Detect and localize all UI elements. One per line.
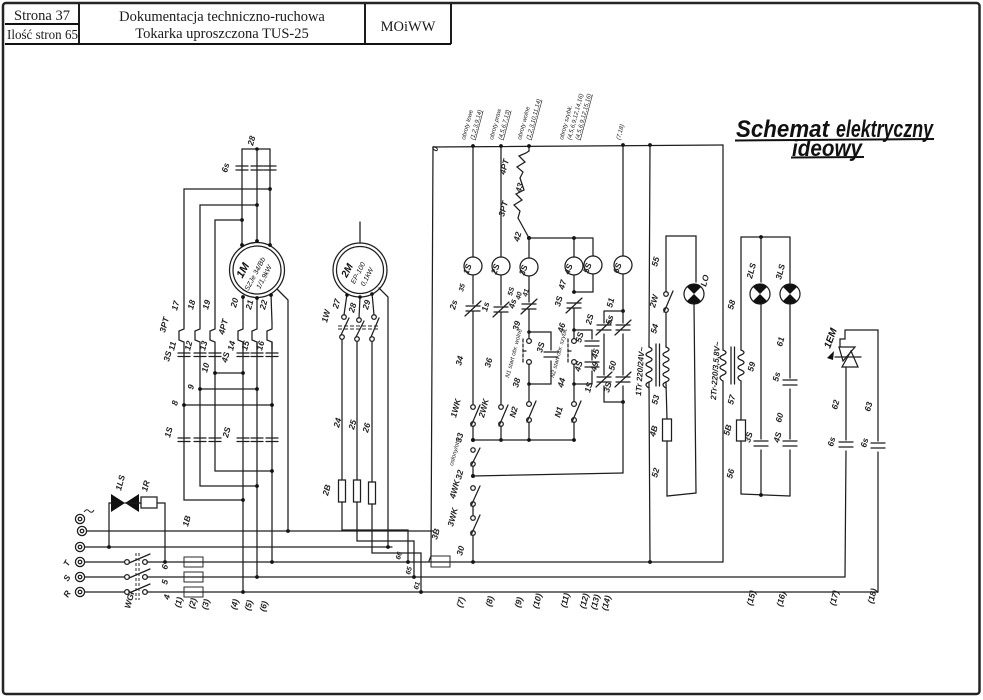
- wire 1M frame to neutral: [277, 289, 288, 531]
- svg-text:3S: 3S: [517, 263, 530, 277]
- limit switch 2WK: [476, 397, 508, 442]
- wire 17 step: [169, 189, 270, 323]
- svg-text:(4): (4): [228, 598, 240, 611]
- svg-text:Dokumentacja techniczno-ruchow: Dokumentacja techniczno-ruchowa: [119, 9, 325, 25]
- wire 20 motor bottom lead: [228, 295, 245, 323]
- interlock bottom rail: [604, 400, 625, 473]
- svg-text:1R: 1R: [139, 479, 152, 493]
- fuse 1B pole 1: [184, 557, 203, 567]
- svg-text:32: 32: [453, 469, 465, 481]
- terminal 0: [77, 526, 86, 535]
- svg-text:2WK: 2WK: [476, 397, 491, 420]
- svg-text:36: 36: [482, 357, 494, 369]
- svg-text:60: 60: [773, 412, 785, 424]
- svg-text:34: 34: [453, 355, 465, 367]
- svg-text:1B: 1B: [180, 514, 192, 527]
- links 6s: [219, 162, 276, 174]
- wire numbers 66 65 61: [395, 551, 422, 590]
- wire column 15 mid: [256, 342, 258, 486]
- svg-text:22: 22: [257, 299, 269, 312]
- wire column 16 mid: [271, 342, 273, 471]
- svg-text:2LS: 2LS: [744, 262, 758, 281]
- svg-text:62: 62: [829, 399, 841, 411]
- button N2 stop: [507, 384, 536, 442]
- svg-text:3LS: 3LS: [773, 263, 787, 281]
- svg-text:4: 4: [161, 593, 172, 601]
- svg-text:54: 54: [648, 323, 660, 335]
- chain 2S column: NC contact 1s: [479, 275, 509, 404]
- terminal R: [61, 587, 85, 599]
- svg-text:4PT: 4PT: [497, 157, 511, 176]
- svg-text:5S: 5S: [581, 261, 594, 275]
- svg-text:(7,18): (7,18): [616, 124, 626, 141]
- svg-text:2B: 2B: [320, 483, 333, 497]
- svg-text:3S: 3S: [552, 295, 564, 308]
- wire column 13 lower: [215, 350, 272, 471]
- terminal N: [75, 542, 84, 551]
- svg-text:6s: 6s: [858, 437, 870, 449]
- svg-text:17: 17: [169, 299, 181, 312]
- svg-text:61: 61: [774, 336, 786, 348]
- wire 61 contact 5s 60 contact 4S: [770, 305, 797, 496]
- svg-text:28: 28: [245, 135, 257, 148]
- svg-text:1W: 1W: [319, 308, 332, 324]
- fuse 4B: [647, 419, 671, 441]
- net label obroty wolne: [517, 98, 543, 140]
- wire 29 lead: [360, 292, 374, 315]
- motor 2M: [333, 243, 387, 297]
- svg-text:2S: 2S: [220, 426, 233, 440]
- svg-text:4S: 4S: [771, 431, 784, 445]
- lamp 3LS: [773, 263, 800, 304]
- lamp loop LO top: [666, 236, 696, 282]
- coil 3S: [517, 238, 538, 277]
- wire phase y592: [85, 590, 878, 594]
- wire 22 motor bottom lead: [257, 293, 273, 323]
- svg-text:4WK: 4WK: [447, 478, 462, 501]
- wire 53 52: [649, 383, 667, 479]
- transformer 2Tr: [709, 341, 744, 401]
- wire 57 56: [724, 381, 741, 480]
- svg-text:35: 35: [458, 283, 467, 292]
- bus left edge: [429, 147, 433, 561]
- svg-text:1WK: 1WK: [448, 397, 463, 419]
- fuse 2B pole2: [354, 480, 361, 502]
- contactor contacts 3S row: [161, 350, 221, 363]
- net label obroty szybk: [559, 93, 593, 140]
- riser wire 16->phase y562: [271, 471, 273, 562]
- svg-text:65: 65: [405, 566, 414, 575]
- wire phase y562: [85, 560, 723, 564]
- transformer 1Tr: [634, 344, 669, 396]
- interlock branch A: [582, 311, 623, 402]
- svg-text:5S: 5S: [507, 286, 516, 296]
- bus right edge / 2Tr primary: [720, 145, 726, 562]
- contactor contacts 4S row: [219, 351, 278, 365]
- net label obroty lewe: [461, 109, 484, 141]
- svg-text:1EM: 1EM: [822, 326, 840, 350]
- link wire 8: [169, 399, 274, 407]
- lamp loop 2 bottom: [741, 441, 790, 497]
- contactor contacts 2S row: [220, 426, 278, 442]
- coil 6S: [611, 145, 632, 275]
- wire numbers 11 12 13 14 15 16: [166, 340, 266, 352]
- fuse 3B: [429, 527, 466, 567]
- svg-text:57: 57: [725, 393, 737, 406]
- svg-text:14: 14: [225, 340, 237, 352]
- rail 33: [473, 439, 574, 441]
- wire neutral N y547: [85, 545, 392, 549]
- riser wire 15->phase y577: [256, 486, 258, 577]
- coil 4S: [561, 257, 583, 277]
- selfhold contacts 5S 4S: [572, 330, 601, 384]
- svg-text:44: 44: [555, 377, 567, 390]
- wire 18 step: [185, 205, 257, 323]
- wire 42 link: [529, 236, 593, 257]
- svg-text:N2 start obr. szybk.: N2 start obr. szybk.: [550, 327, 569, 378]
- wire 2B out 2: [357, 502, 414, 577]
- svg-text:Strona 37: Strona 37: [14, 8, 70, 24]
- fuse 5B: [721, 420, 745, 441]
- lamp loop LO bottom: [667, 304, 696, 496]
- svg-text:1Tr 220/24V~: 1Tr 220/24V~: [634, 346, 646, 396]
- link wire 10: [199, 362, 245, 375]
- svg-text:28: 28: [346, 302, 358, 315]
- limit switch 3WK: [445, 506, 480, 562]
- svg-text:3S: 3S: [161, 350, 173, 363]
- wire 2B out 3: [372, 504, 421, 592]
- svg-text:51: 51: [604, 297, 616, 309]
- svg-text:(16): (16): [774, 590, 788, 607]
- svg-text:2S: 2S: [583, 313, 596, 327]
- svg-text:19: 19: [200, 299, 212, 311]
- limit switch 4WK: [447, 478, 480, 506]
- wire 1M top lead c: [268, 149, 272, 247]
- svg-text:4S: 4S: [219, 351, 232, 365]
- net label obroty praw: [489, 107, 512, 140]
- wire 43: [513, 178, 525, 194]
- svg-text:4PT: 4PT: [216, 317, 230, 336]
- bus 0 top: [429, 143, 723, 153]
- coil 5S: [581, 256, 602, 275]
- wire 62 contact 6s: [825, 367, 853, 577]
- svg-text:18: 18: [185, 299, 197, 311]
- thermal contact 4PT: [497, 146, 529, 178]
- svg-text:42: 42: [511, 231, 523, 244]
- svg-text:52: 52: [649, 467, 661, 479]
- lamp 2LS: [744, 262, 770, 304]
- rail 32: [473, 473, 623, 476]
- svg-text:5S: 5S: [573, 331, 585, 344]
- guard switch oslony: [449, 437, 480, 467]
- thermal contact 3PT: [496, 190, 524, 218]
- wire 26: [360, 342, 372, 482]
- node 32: [453, 466, 475, 481]
- wire column 11 lower: [184, 350, 243, 500]
- svg-text:10: 10: [199, 362, 211, 374]
- svg-text:5s: 5s: [770, 371, 782, 383]
- svg-text:N1: N1: [552, 405, 565, 418]
- riser wire 14->phase y592: [242, 500, 244, 592]
- lamp loop 2 top: [741, 235, 790, 283]
- node 42: [511, 218, 531, 243]
- svg-text:20: 20: [228, 297, 240, 310]
- wire 2M frame to neutral: [379, 288, 388, 547]
- wire 1M top lead a: [240, 149, 244, 247]
- svg-text:(8): (8): [483, 595, 495, 608]
- svg-text:50: 50: [606, 360, 618, 372]
- clutch 1EM: [822, 326, 878, 367]
- svg-text:38: 38: [510, 377, 522, 389]
- svg-text:(2): (2): [186, 597, 198, 610]
- svg-text:8: 8: [169, 399, 180, 406]
- wire column 12 lower: [200, 350, 257, 486]
- svg-text:47: 47: [556, 278, 569, 292]
- terminal S: [61, 572, 85, 583]
- wire 2M top stub: [359, 222, 361, 243]
- main switch WGl: [122, 553, 150, 610]
- svg-text:56: 56: [724, 468, 736, 480]
- svg-text:58: 58: [725, 299, 737, 311]
- chain 3S column: NC contact 4s: [506, 276, 537, 332]
- node 44: [555, 364, 592, 389]
- node 47: [556, 274, 593, 294]
- chain 4S column: NC contact 3S: [552, 295, 582, 335]
- svg-text:15: 15: [239, 340, 251, 352]
- terminal N0: [75, 510, 94, 524]
- coil 2S: [488, 146, 510, 277]
- terminal T: [61, 557, 85, 568]
- motor 1M: [230, 243, 285, 298]
- svg-text:(10): (10): [530, 592, 544, 609]
- svg-text:1LS: 1LS: [113, 474, 127, 492]
- coil 1S: [461, 146, 482, 276]
- transformer 1Tr primary feed: [649, 145, 650, 347]
- svg-text:(3): (3): [199, 598, 211, 611]
- svg-text:2Tr-220/3,5,8V~: 2Tr-220/3,5,8V~: [709, 341, 722, 401]
- svg-text:53: 53: [649, 394, 661, 406]
- wire 19 step: [200, 220, 242, 323]
- wire 21 motor bottom lead: [243, 296, 259, 323]
- fuse 1B pole 3: [184, 587, 203, 597]
- button N2 start obr szybk: [550, 327, 576, 378]
- wire 55: [649, 236, 666, 292]
- wire 2B out 1: [342, 502, 408, 562]
- svg-text:Ilość stron 65: Ilość stron 65: [7, 27, 78, 42]
- svg-text:2s: 2s: [447, 299, 459, 312]
- wire 1Tr primary to phase: [649, 383, 650, 562]
- switch 2W: [647, 291, 673, 347]
- svg-text:6s: 6s: [825, 436, 837, 448]
- node 51: [604, 274, 625, 313]
- node 33: [453, 426, 475, 444]
- limit switch 1WK: [448, 397, 480, 426]
- svg-text:3PT: 3PT: [157, 315, 171, 333]
- signal lamp 1LS: [109, 474, 141, 547]
- switch 1W: [319, 308, 380, 342]
- fuse 2B pole3: [369, 482, 376, 504]
- wire 24: [331, 340, 343, 480]
- wire 58: [725, 237, 741, 350]
- svg-text:(9): (9): [512, 596, 524, 609]
- svg-text:(7): (7): [454, 596, 466, 609]
- wire column 14 mid: [242, 342, 244, 500]
- svg-text:3B: 3B: [429, 527, 441, 540]
- breaker contacts 3PT: [157, 315, 215, 350]
- svg-text:(11): (11): [558, 592, 571, 609]
- svg-text:(6): (6): [257, 600, 269, 613]
- svg-text:27: 27: [330, 297, 343, 311]
- wire 25: [346, 342, 358, 480]
- svg-text:5s: 5s: [603, 314, 615, 326]
- fuse 1B pole 2: [184, 572, 203, 582]
- svg-text:3WK: 3WK: [445, 506, 460, 528]
- wire 59 contact 3S: [742, 304, 768, 496]
- svg-text:S: S: [61, 573, 73, 583]
- svg-text:osłony/otw: osłony/otw: [449, 437, 462, 467]
- button N1 stop: [552, 384, 581, 442]
- svg-text:4B: 4B: [647, 424, 660, 438]
- junction dots bottom links: [241, 469, 274, 502]
- svg-text:29: 29: [360, 299, 372, 312]
- svg-text:R: R: [61, 588, 73, 599]
- fuse 2B pole1: [339, 480, 346, 502]
- resistor 1R: [125, 479, 165, 562]
- node 38: [510, 364, 551, 389]
- wire neutral 0 y531: [87, 529, 433, 533]
- wire 27 lead: [330, 293, 349, 315]
- svg-text:9: 9: [185, 383, 196, 390]
- svg-text:(1): (1): [172, 596, 184, 609]
- wire phase y577: [85, 575, 845, 579]
- selfhold contact 3S: [529, 332, 558, 384]
- svg-text:13: 13: [197, 340, 209, 352]
- svg-text:1s: 1s: [479, 301, 491, 313]
- wire 63 contact 6s: [858, 330, 885, 592]
- svg-text:26: 26: [360, 422, 372, 435]
- title: Schemat elektryczny ideowy: [735, 116, 934, 161]
- wire 1M top lead b: [255, 149, 259, 243]
- svg-text:N2: N2: [507, 405, 520, 418]
- svg-text:(18): (18): [865, 587, 879, 604]
- chain 1S column: NC contact 2s: [447, 275, 481, 404]
- svg-text:6: 6: [159, 563, 170, 570]
- svg-text:59: 59: [745, 361, 757, 373]
- svg-text:0: 0: [429, 145, 440, 153]
- svg-text:16: 16: [254, 340, 266, 352]
- svg-text:45: 45: [589, 348, 601, 361]
- breaker contacts 4PT: [216, 317, 272, 350]
- button N1 start obr wolne: [505, 328, 531, 379]
- svg-text:MOiWW: MOiWW: [381, 19, 436, 35]
- svg-text:Tokarka uproszczona TUS-25: Tokarka uproszczona TUS-25: [135, 26, 308, 42]
- svg-text:1S: 1S: [461, 262, 474, 276]
- svg-text:6S: 6S: [611, 261, 624, 275]
- svg-text:(1,2,3,10,11,14): (1,2,3,10,11,14): [526, 98, 543, 140]
- svg-text:LO: LO: [698, 273, 711, 287]
- star bar 28: [242, 135, 270, 151]
- svg-text:1S: 1S: [162, 426, 174, 439]
- svg-text:55: 55: [649, 256, 661, 268]
- svg-text:N1 start obr. wolne: N1 start obr. wolne: [505, 328, 524, 379]
- svg-text:(5): (5): [242, 599, 254, 612]
- lamp LO: [684, 273, 711, 304]
- svg-text:5: 5: [159, 578, 170, 585]
- header table: [5, 4, 451, 44]
- svg-text:5B: 5B: [721, 423, 733, 436]
- svg-text:3PT: 3PT: [496, 199, 510, 217]
- contactor contacts 1S row: [162, 426, 221, 442]
- svg-text:11: 11: [166, 340, 178, 351]
- svg-text:30: 30: [454, 545, 466, 557]
- svg-text:1S: 1S: [582, 381, 594, 394]
- svg-text:63: 63: [862, 401, 874, 413]
- svg-text:6s: 6s: [219, 162, 231, 174]
- svg-text:21: 21: [243, 299, 255, 312]
- interlock branch B: [601, 311, 631, 402]
- svg-text:T: T: [61, 558, 73, 568]
- svg-text:3S: 3S: [601, 381, 613, 394]
- wire 28 lead: [346, 295, 362, 318]
- link wire 9: [185, 383, 259, 391]
